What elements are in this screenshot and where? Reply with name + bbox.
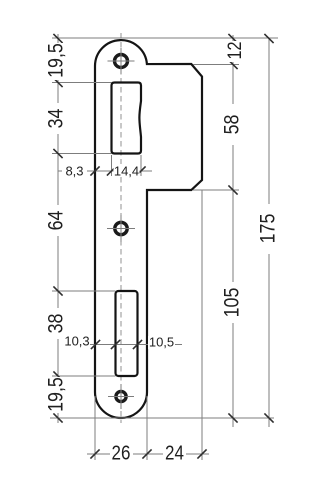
label 14,4 [114, 163, 140, 178]
label 58 [220, 104, 244, 145]
hole H3 crosshair [108, 396, 134, 398]
svg-text:26: 26 [112, 441, 131, 464]
extension line lip right edge down [201, 190, 203, 460]
svg-text:38: 38 [44, 314, 68, 334]
label 175 [256, 204, 280, 254]
svg-text:12: 12 [224, 42, 246, 60]
ticks left chain [53, 34, 62, 423]
extension line lip bottom [193, 189, 239, 191]
label 19,5 upper [44, 43, 68, 80]
extension line plate bottom [50, 417, 274, 419]
extension line bottom mid edge [146, 396, 148, 460]
dimension line 175 [268, 38, 270, 428]
label 105 [220, 282, 244, 323]
plate outline [95, 40, 202, 418]
dimension line left chain [57, 34, 59, 423]
label 12 [224, 41, 246, 62]
label 64 [44, 205, 68, 236]
extension cutout1 left edge [111, 155, 113, 176]
hole H1 top screw hole [115, 55, 128, 68]
svg-text:105: 105 [220, 287, 244, 317]
cutout upper (latch opening) [112, 83, 142, 154]
ticks right chain [228, 34, 237, 423]
cutout lower (deadbolt opening) [116, 291, 138, 376]
label 24 [163, 441, 186, 464]
svg-text:8,3: 8,3 [65, 163, 83, 178]
label 34 [44, 103, 68, 134]
hole H2 middle screw hole [115, 222, 127, 234]
extension line bottom left edge [94, 396, 96, 460]
ticks bottom widths [90, 449, 206, 458]
hole H2 crosshair [107, 228, 135, 230]
svg-text:19,5: 19,5 [44, 377, 68, 412]
dimension line 10,3 / 10,5 [90, 344, 182, 346]
ticks 175 line [264, 34, 273, 423]
dimension line bottom widths [87, 453, 209, 455]
label 19,5 lower [44, 377, 68, 413]
ticks 8,3 14,4 [90, 166, 145, 175]
svg-text:10,3: 10,3 [64, 334, 89, 349]
extension line cutout2 top [52, 290, 116, 292]
extension line cutout1 bottom [52, 153, 112, 155]
extension cutout1 right edge [140, 155, 142, 176]
svg-text:14,4: 14,4 [114, 163, 139, 178]
ticks 10,3 10,5 [91, 340, 142, 349]
hole H1 crosshair [108, 60, 135, 62]
svg-text:10,5: 10,5 [149, 335, 174, 350]
extension line lip top [193, 64, 239, 66]
label 26 [110, 441, 133, 464]
svg-text:24: 24 [165, 441, 184, 464]
label 38 [44, 308, 68, 339]
dimension line right chain 12-58-105 [232, 35, 234, 427]
svg-text:175: 175 [256, 213, 280, 243]
svg-text:58: 58 [220, 115, 244, 135]
dimension line 8,3 / 14,4 [58, 170, 152, 172]
extension line plate top [52, 37, 278, 39]
label 10,5 [148, 335, 175, 350]
svg-text:19,5: 19,5 [44, 43, 68, 78]
label 8,3 [62, 163, 87, 178]
svg-text:34: 34 [44, 108, 68, 128]
extension line cutout1 top [52, 82, 112, 84]
hole H3 bottom screw hole [116, 391, 126, 401]
extension line cutout2 bottom [52, 375, 116, 377]
centerline vertical axis [120, 33, 122, 423]
svg-text:64: 64 [44, 210, 68, 230]
